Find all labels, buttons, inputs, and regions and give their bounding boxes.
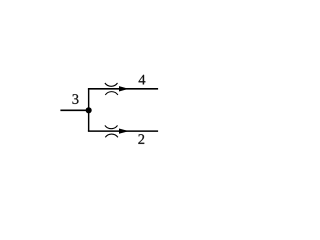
port 2 label bbox=[138, 134, 144, 144]
junction dot bbox=[86, 107, 92, 113]
restrictor upper arc (bottom branch) bbox=[105, 125, 118, 128]
wire vertical branch bbox=[88, 89, 90, 131]
flow arrow (top branch) bbox=[119, 86, 129, 91]
wire bottom branch bbox=[88, 130, 158, 132]
flow arrow (bottom branch) bbox=[119, 129, 129, 134]
wire port3 horizontal bbox=[60, 109, 88, 111]
restrictor upper arc (top branch) bbox=[105, 83, 118, 86]
restrictor lower arc (bottom branch) bbox=[105, 134, 118, 137]
restrictor lower arc (top branch) bbox=[105, 92, 118, 95]
wire top branch bbox=[88, 88, 158, 90]
port 4 label bbox=[139, 75, 146, 85]
node 3 label bbox=[72, 94, 78, 104]
